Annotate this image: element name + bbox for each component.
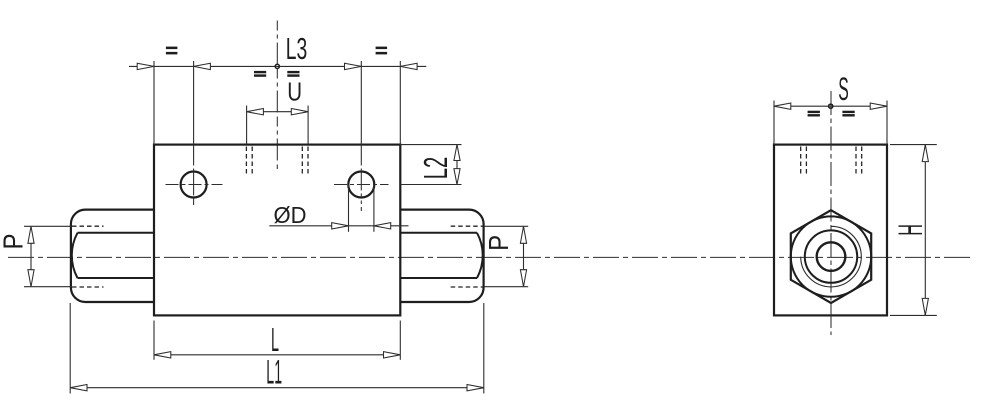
extension line hole2 center (top) (360, 61, 362, 162)
left hex fitting outline (71, 210, 154, 302)
equal mark above right span (376, 47, 388, 55)
arrow S left pointing left (774, 103, 791, 109)
dimension L3 / equal marks: dimension line (129, 65, 426, 67)
dimension OD: dimension line (269, 225, 408, 227)
dimension L: dimension line (154, 354, 400, 356)
P left extension line top (24, 225, 72, 227)
hidden top thread hole right pair (front) (301, 147, 303, 177)
dimension P right: dimension line (523, 226, 525, 286)
arrow at hole2 center pointing right (345, 63, 362, 69)
equal mark above left span (166, 47, 178, 55)
svg-text:L3: L3 (286, 31, 308, 66)
right fitting hidden thread line bottom (451, 286, 484, 288)
arrow H top pointing up (922, 145, 928, 162)
svg-text:P: P (483, 235, 514, 251)
left fitting middle face bulge arc (72, 233, 78, 278)
H extension line top (890, 144, 937, 146)
right hex fitting outline (400, 210, 483, 302)
P right extension line top (484, 225, 528, 227)
right fitting upper face line (400, 232, 477, 234)
right fitting hidden thread line top (451, 225, 484, 227)
arrow P right top pointing up (520, 226, 526, 243)
arrow at hole1 center pointing left (194, 63, 211, 69)
mounting hole 1 (181, 172, 207, 198)
svg-text:P: P (0, 234, 29, 250)
S extension line right (886, 101, 888, 145)
hole 2 vertical centerline (360, 162, 362, 211)
L1 extension line left (69, 303, 71, 394)
valve body front view (154, 145, 400, 316)
svg-text:L: L (271, 321, 279, 358)
arrow P right bottom pointing down (520, 270, 526, 287)
extension line U left (246, 106, 248, 144)
hole 1 vertical centerline (193, 162, 195, 205)
arrow P left bottom pointing down (28, 270, 34, 287)
extension line body right edge (top) (399, 61, 401, 145)
L2 extension line bottom (400, 184, 461, 186)
hex chamfer circle tangent to flats (791, 216, 871, 296)
equal mark below S line right (842, 111, 854, 117)
right fitting middle face bulge arc (477, 233, 483, 278)
equal mark right of center dot (287, 71, 299, 77)
thread major diameter thin arc (3/4) (801, 226, 862, 287)
extension line body left edge (top) (153, 61, 155, 145)
arrow L2 top pointing up (454, 145, 460, 161)
H extension line bottom (890, 314, 937, 316)
arrow U right pointing right (291, 109, 308, 115)
S extension line left (773, 101, 775, 145)
svg-text:L2: L2 (417, 157, 454, 180)
dimension P left: dimension line (30, 226, 32, 286)
main horizontal centerline (8, 256, 974, 258)
arrow S right pointing right (870, 103, 887, 109)
svg-text:U: U (287, 77, 302, 107)
svg-text:L1: L1 (266, 354, 282, 392)
dimension L2: dimension line (456, 145, 458, 185)
arrow L right pointing right (384, 352, 401, 358)
arrow OD left pointing right (332, 223, 349, 229)
S symmetry dot (829, 104, 833, 108)
extension line tangent right of hole2 (373, 185, 375, 232)
hole 1 horizontal centerline (166, 184, 223, 186)
L extension line right (399, 321, 401, 360)
dimension S: dimension line (774, 105, 887, 107)
extension line tangent left of hole2 (348, 185, 350, 232)
svg-text:H: H (892, 224, 930, 236)
arrow at body right edge pointing left (400, 63, 417, 69)
hidden thread hole pair right (side view) (855, 147, 857, 177)
arrow OD right pointing left (374, 223, 391, 229)
L extension line left (153, 321, 155, 360)
arrow L left pointing left (154, 352, 171, 358)
arrow P left top pointing up (28, 226, 34, 243)
arrow L1 right pointing right (467, 385, 484, 391)
P right extension line bottom (484, 286, 528, 288)
svg-text:S: S (838, 71, 849, 107)
arrow H bottom pointing down (922, 298, 928, 315)
left fitting hidden thread line top (72, 225, 104, 227)
dimension L1: dimension line (70, 387, 484, 389)
L1 extension line right (483, 303, 485, 394)
plug bore circle (817, 242, 846, 271)
front view vertical centerline (276, 21, 278, 170)
extension line hole1 center (top) (193, 61, 195, 162)
plug counterbore circle (805, 230, 857, 282)
arrow U left pointing left (247, 109, 264, 115)
extension line U right (307, 106, 309, 144)
svg-text:ØD: ØD (274, 202, 307, 228)
L2 extension line top (400, 144, 461, 146)
L3 symmetry dot (275, 64, 279, 68)
hidden top thread hole left pair (front) (245, 147, 247, 177)
hole 2 horizontal centerline (334, 184, 389, 186)
equal mark left of center dot (254, 71, 266, 77)
left fitting upper face line (78, 232, 155, 234)
side view body rectangle (774, 145, 887, 316)
equal mark below S line left (808, 111, 820, 117)
P left extension line bottom (24, 286, 72, 288)
left fitting lower face line (78, 277, 155, 279)
dimension H: dimension line (924, 145, 926, 316)
arrow L1 left pointing left (70, 385, 87, 391)
arrow at body left edge pointing right (137, 63, 154, 69)
hex plug outline (side view) (791, 210, 871, 303)
dimension U: dimension line (247, 111, 309, 113)
arrow L2 bottom pointing down (454, 169, 460, 185)
right fitting lower face line (400, 277, 477, 279)
hidden thread hole pair left (side view) (800, 147, 802, 177)
side view vertical centerline (830, 91, 832, 335)
mounting hole 2 (348, 172, 374, 198)
left fitting hidden thread line bottom (72, 286, 104, 288)
